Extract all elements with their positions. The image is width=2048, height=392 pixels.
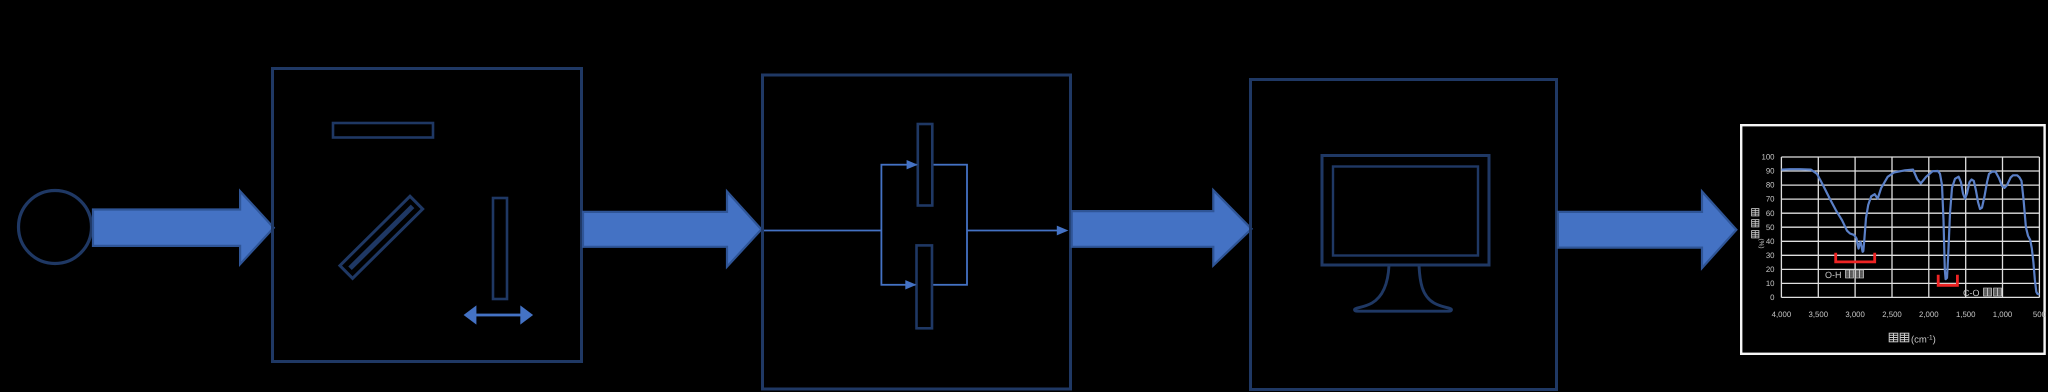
sample cell lower window	[917, 245, 933, 328]
svg-text:60: 60	[1766, 209, 1775, 218]
beamsplitter BS	[340, 196, 423, 278]
svg-text:70: 70	[1766, 195, 1775, 204]
double-headed travel arrow	[464, 305, 533, 324]
svg-text:1,000: 1,000	[1993, 310, 2013, 319]
IR spectrum curve	[1781, 169, 2039, 294]
sample cell upper window	[918, 124, 933, 206]
svg-text:C-O: C-O	[1963, 288, 1980, 298]
monitor stand	[1355, 265, 1452, 311]
light source circle	[19, 191, 92, 264]
arrow A3 sample to computer	[1072, 190, 1252, 265]
svg-text:30: 30	[1766, 251, 1775, 260]
box B3 computer	[1251, 80, 1557, 390]
beam entry wire	[764, 230, 881, 232]
box B1 interferometer	[273, 69, 582, 362]
svg-text:90: 90	[1766, 167, 1775, 176]
chart gridlines	[1781, 157, 2039, 298]
beam exit wire	[967, 230, 1058, 232]
arrowhead upper path	[907, 160, 918, 169]
svg-text:80: 80	[1766, 181, 1775, 190]
fixed mirror M1	[333, 123, 433, 138]
exit arrowhead	[1057, 226, 1069, 236]
svg-text:500: 500	[2033, 310, 2047, 319]
svg-text:4,000: 4,000	[1772, 310, 1792, 319]
svg-text:3,000: 3,000	[1845, 310, 1865, 319]
moving mirror M2	[493, 198, 507, 299]
arrow A4 computer to spectrum	[1558, 192, 1737, 269]
svg-text:100: 100	[1761, 153, 1775, 162]
svg-text:(cm-1): (cm-1)	[1911, 335, 1936, 346]
svg-text:10: 10	[1766, 279, 1775, 288]
spectrum chart frame	[1741, 125, 2044, 354]
y axis tick labels	[1761, 153, 1775, 303]
monitor screen	[1333, 167, 1478, 256]
arrow A2 interferometer to sample	[583, 192, 761, 267]
svg-text:40: 40	[1766, 237, 1775, 246]
beam split loop wire	[881, 165, 967, 285]
svg-text:O-H: O-H	[1825, 270, 1842, 280]
svg-text:50: 50	[1766, 223, 1775, 232]
svg-text:2,500: 2,500	[1882, 310, 1902, 319]
monitor outer bezel	[1322, 156, 1489, 266]
svg-text:3,500: 3,500	[1809, 310, 1829, 319]
svg-text:20: 20	[1766, 265, 1775, 274]
svg-text:0: 0	[1770, 293, 1775, 302]
x axis tick labels	[1772, 310, 2047, 319]
C-O band bracket	[1938, 275, 1957, 286]
svg-text:1,500: 1,500	[1956, 310, 1976, 319]
svg-text:2,000: 2,000	[1919, 310, 1939, 319]
O-H band bracket	[1836, 253, 1875, 262]
svg-text:(%): (%)	[1758, 238, 1765, 248]
y axis title (transmittance)	[1752, 209, 1759, 238]
arrowhead lower path	[905, 280, 916, 289]
x axis title wavenumber (cm-1)	[1889, 333, 1909, 342]
box B2 sample compartment	[763, 75, 1071, 389]
arrow A1 source to interferometer	[93, 191, 274, 264]
